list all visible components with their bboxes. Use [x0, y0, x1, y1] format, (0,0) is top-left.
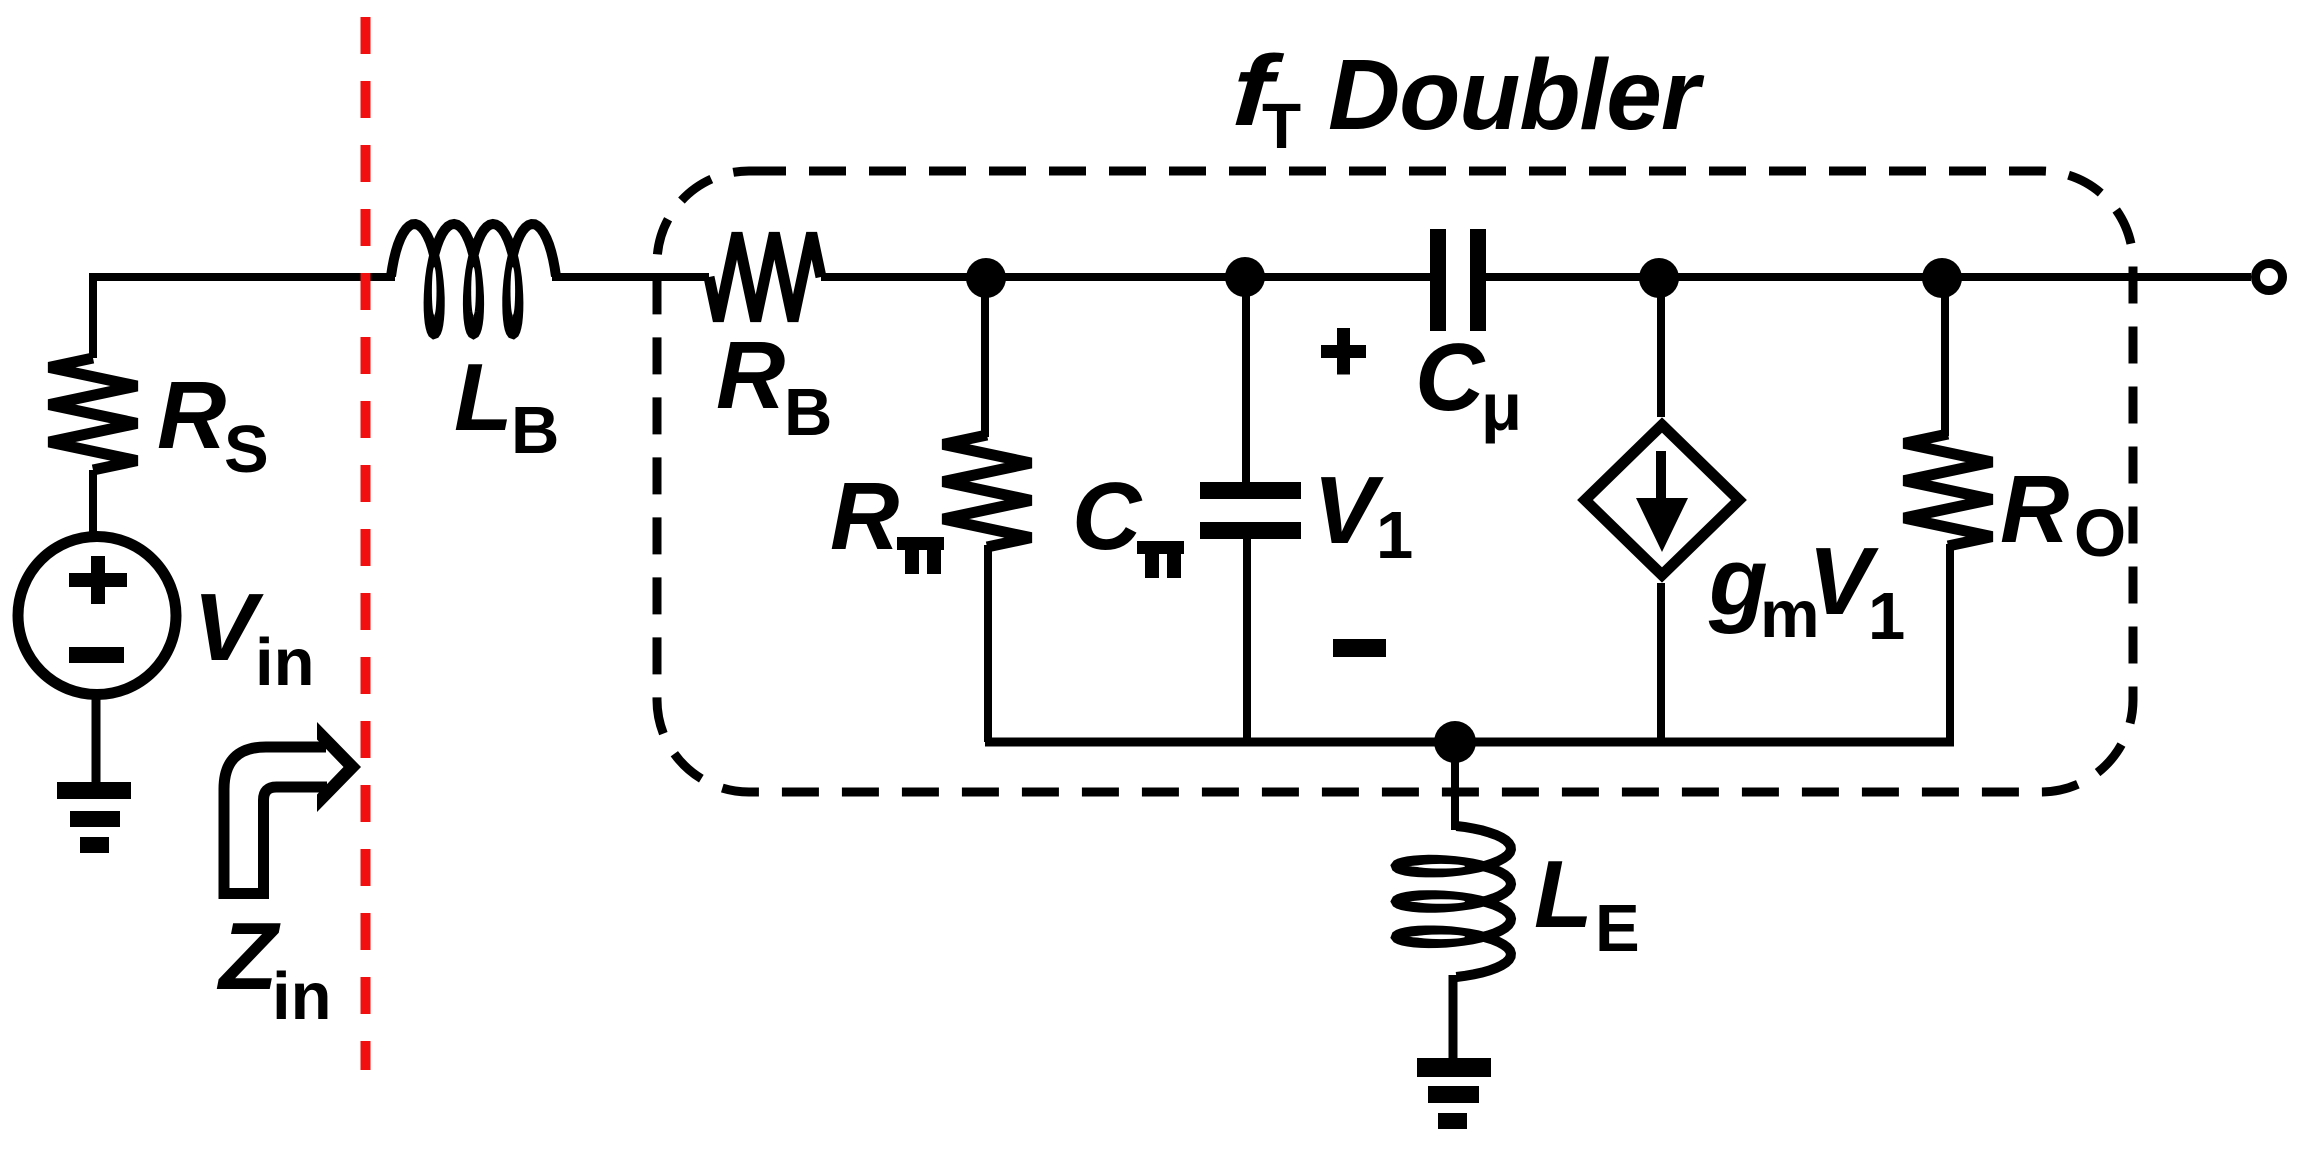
svg-text:1: 1: [1868, 579, 1905, 654]
capacitor Cpi: [1200, 482, 1301, 499]
svg-text:L: L: [1534, 841, 1593, 948]
source Vin: [18, 537, 176, 695]
Vin plus polarity: [69, 556, 127, 604]
title fT Doubler: [1218, 34, 1290, 146]
svg-text:L: L: [454, 344, 513, 451]
svg-text:V: V: [193, 574, 264, 681]
Zin reference plane (red dashed): [361, 17, 371, 1070]
node B (Cpi top): [1225, 257, 1265, 297]
node A (base): [966, 258, 1006, 298]
wire RB to Cmu (base net): [821, 273, 1430, 281]
svg-text:R: R: [830, 463, 899, 570]
capacitor Cmu: [1430, 229, 1446, 331]
ground (emitter): [1417, 1058, 1491, 1077]
svg-text:C: C: [1072, 463, 1143, 570]
Vin minus polarity: [69, 647, 124, 663]
svg-text:S: S: [224, 412, 269, 487]
wire node E to LE: [1451, 742, 1459, 830]
wire Vin to ground: [92, 694, 101, 782]
svg-text:O: O: [2074, 496, 2126, 571]
fT Doubler dashed box: [657, 171, 2133, 792]
plus sign V1: [1321, 328, 1366, 375]
svg-text:V: V: [1313, 457, 1384, 564]
wire node A down: [981, 278, 989, 437]
wire Cpi to rail: [1243, 539, 1251, 742]
output terminal: [2256, 264, 2283, 291]
wire LB to RB: [552, 273, 709, 281]
svg-text:R: R: [2000, 456, 2069, 563]
svg-text:1: 1: [1376, 498, 1413, 573]
svg-text:T: T: [1262, 90, 1301, 162]
wire left vertical: [89, 273, 97, 358]
ground (source): [57, 782, 131, 799]
wire node B down: [1242, 277, 1250, 483]
svg-text:μ: μ: [1481, 370, 1522, 445]
Zin arrow: [219, 722, 361, 899]
current source gmV1: [1585, 425, 1739, 575]
node C (collector top): [1639, 258, 1679, 298]
wire Cmu to output terminal: [1486, 273, 2251, 281]
wire RO to rail: [1946, 544, 1954, 742]
resistor RB: [709, 233, 821, 321]
resistor RS: [49, 358, 137, 470]
svg-text:R: R: [157, 362, 226, 469]
svg-text:g: g: [1708, 528, 1768, 635]
svg-text:in: in: [272, 959, 332, 1034]
svg-text:B: B: [511, 393, 559, 468]
svg-text:C: C: [1415, 324, 1486, 431]
inductor LE: [1396, 826, 1511, 977]
wire RS to Vin: [89, 470, 97, 537]
inductor LB: [391, 224, 556, 334]
wire node D down: [1941, 278, 1949, 436]
wire source to LB: [93, 273, 395, 281]
node D (output top): [1922, 258, 1962, 298]
svg-text:B: B: [784, 375, 832, 450]
wire diamond to rail: [1657, 583, 1665, 742]
wire LE to ground: [1449, 975, 1458, 1058]
wire Rpi to rail: [984, 545, 992, 742]
bottom rail wire: [985, 738, 1954, 747]
resistor Rpi: [943, 435, 1031, 547]
svg-text:in: in: [255, 625, 315, 700]
svg-text:Doubler: Doubler: [1328, 39, 1705, 151]
svg-text:E: E: [1595, 891, 1640, 966]
wire node C to diamond: [1657, 278, 1665, 417]
resistor RO: [1904, 434, 1992, 546]
node E (emitter rail): [1434, 721, 1476, 763]
minus sign V1: [1333, 639, 1386, 657]
svg-text:R: R: [716, 322, 785, 429]
